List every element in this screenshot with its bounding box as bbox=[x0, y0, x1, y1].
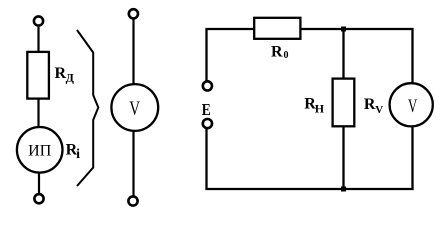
wire bottom-left bbox=[207, 129, 344, 189]
label Rн bbox=[304, 95, 325, 115]
svg-text:Н: Н bbox=[315, 101, 325, 115]
voltmeter V right bbox=[390, 83, 433, 126]
wire bbox=[37, 27, 39, 52]
wire bbox=[37, 99, 39, 127]
svg-text:E: E bbox=[202, 100, 211, 119]
junction top bbox=[341, 27, 346, 32]
svg-text:R: R bbox=[271, 44, 283, 61]
junction bottom bbox=[341, 187, 346, 192]
label Rд bbox=[55, 65, 75, 85]
svg-text:0: 0 bbox=[284, 50, 289, 61]
svg-text:V: V bbox=[375, 104, 383, 116]
terminal E bottom bbox=[203, 119, 212, 128]
svg-text:V: V bbox=[129, 98, 140, 120]
resistor Rд bbox=[27, 52, 49, 99]
svg-text:i: i bbox=[76, 147, 80, 162]
svg-text:ИП: ИП bbox=[28, 142, 52, 159]
terminal top of voltmeter branch bbox=[129, 9, 138, 18]
terminal bottom of voltmeter branch bbox=[128, 196, 137, 205]
wire middle branch bottom bbox=[342, 126, 344, 189]
label Ro bbox=[271, 44, 289, 61]
terminal E top bbox=[203, 81, 212, 90]
label Rv bbox=[364, 96, 383, 116]
wire bottom-right bbox=[344, 127, 413, 190]
resistor Ro bbox=[254, 18, 300, 39]
brace bbox=[77, 30, 98, 186]
terminal top of ammeter branch bbox=[34, 16, 43, 25]
wire middle branch top bbox=[342, 29, 344, 79]
label Ri bbox=[66, 142, 81, 162]
wire bbox=[38, 172, 40, 194]
wire top-right bbox=[344, 29, 413, 83]
wire bbox=[132, 131, 134, 196]
meter ИП bbox=[17, 127, 63, 173]
svg-text:R: R bbox=[364, 96, 376, 113]
resistor Rн bbox=[333, 79, 355, 127]
wire bbox=[132, 19, 134, 85]
wire top-left of right circuit bbox=[207, 29, 344, 81]
voltmeter V left bbox=[111, 84, 158, 131]
svg-text:Д: Д bbox=[66, 70, 75, 84]
svg-text:V: V bbox=[408, 96, 417, 117]
terminal bottom of ammeter branch bbox=[34, 194, 43, 203]
